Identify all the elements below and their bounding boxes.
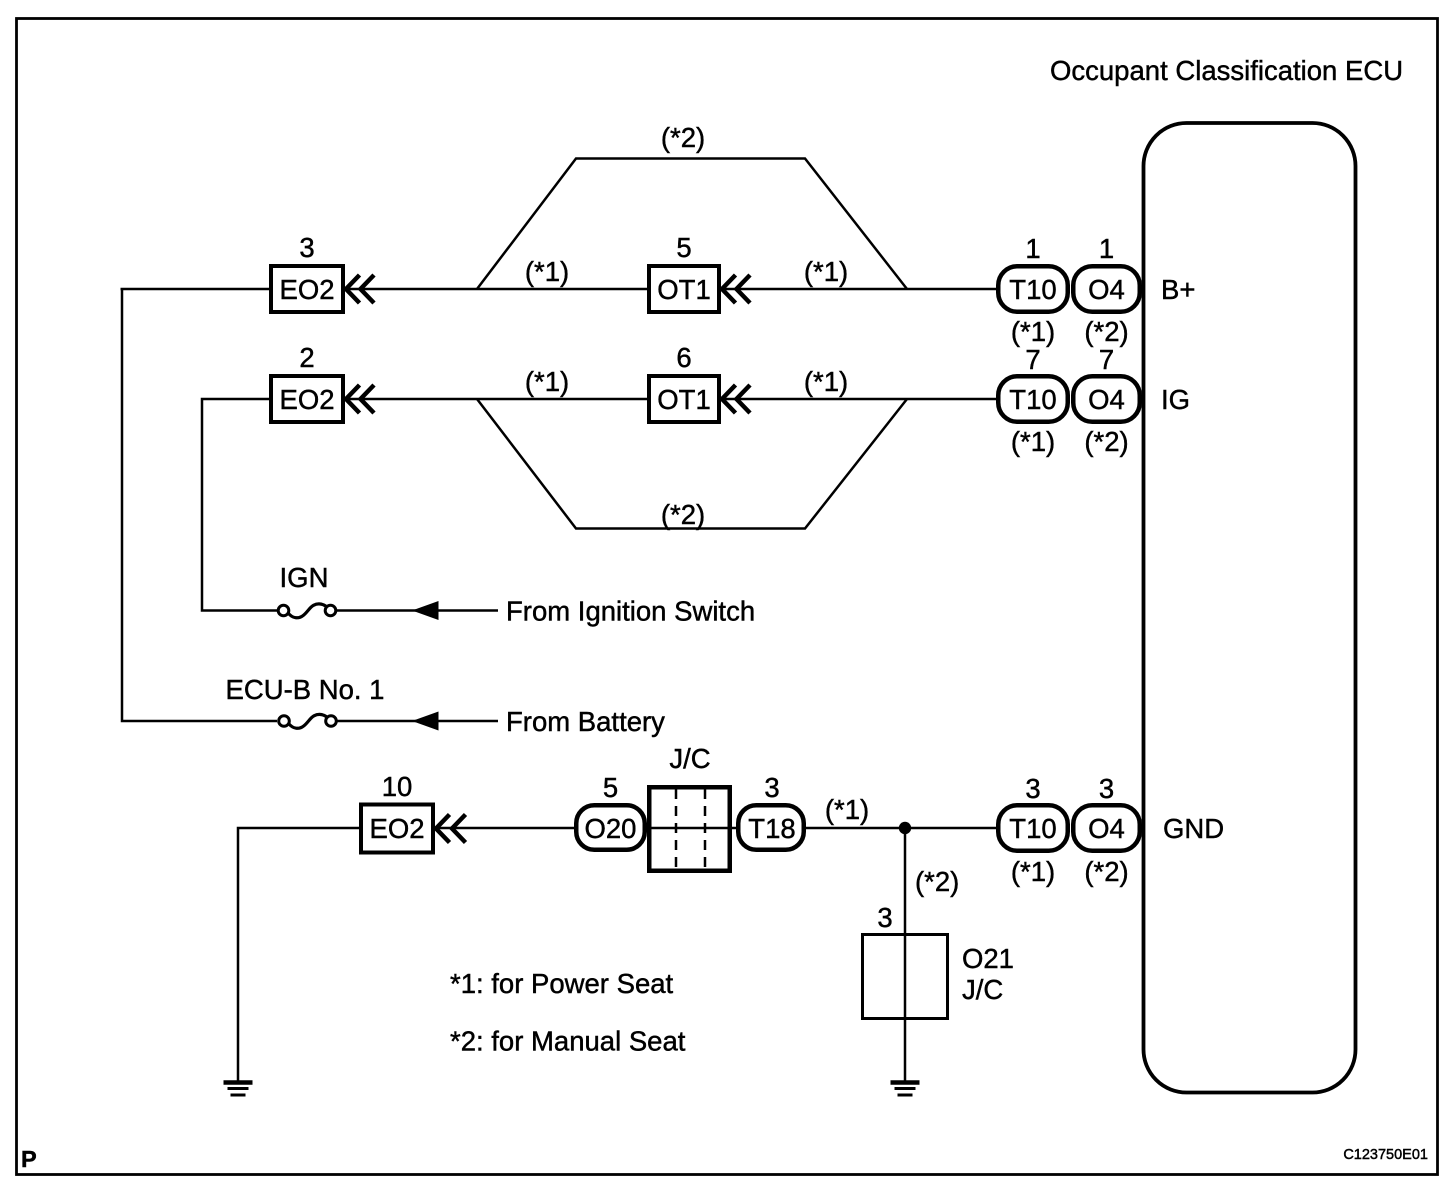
svg-text:7: 7 <box>1099 344 1114 375</box>
connector OT1 pin 6 <box>649 376 719 422</box>
svg-text:From Battery: From Battery <box>506 706 665 737</box>
connector EO2 pin 10 <box>361 805 433 853</box>
svg-text:ECU-B No. 1: ECU-B No. 1 <box>226 674 385 705</box>
wire IG row from EO2 to OT1 <box>345 398 647 401</box>
node junction dot <box>899 822 911 834</box>
svg-text:EO2: EO2 <box>279 384 334 415</box>
wire from EO2 pin2 to IGN fuse vertical <box>202 399 277 611</box>
svg-text:B+: B+ <box>1161 274 1195 305</box>
ground symbol left <box>224 1080 253 1085</box>
svg-text:*1: for Power Seat: *1: for Power Seat <box>450 968 674 999</box>
wire IG row from OT1 to T10 <box>721 398 996 401</box>
connector T10 pin 7 <box>998 376 1068 422</box>
svg-text:From Ignition Switch: From Ignition Switch <box>506 596 755 627</box>
svg-text:(*2): (*2) <box>661 499 705 530</box>
svg-text:(*1): (*1) <box>825 794 869 825</box>
connector O4 pin 7 <box>1073 376 1140 422</box>
svg-text:7: 7 <box>1025 344 1040 375</box>
wire fuse IGN to arrow <box>336 609 420 612</box>
junction block J/C (O20/T18) <box>649 787 730 871</box>
svg-text:(*1): (*1) <box>804 256 848 287</box>
connector EO2 pin 2 <box>271 376 343 422</box>
svg-text:GND: GND <box>1163 813 1224 844</box>
arrow chevrons at OT1 pin 5 <box>722 275 736 303</box>
svg-text:T10: T10 <box>1009 813 1056 844</box>
wire node to O21 to ground <box>904 828 907 1081</box>
svg-text:O4: O4 <box>1088 813 1125 844</box>
svg-text:(*1): (*1) <box>1011 316 1055 347</box>
svg-text:(*2): (*2) <box>915 866 959 897</box>
svg-text:3: 3 <box>1099 773 1114 804</box>
wire B+ row from OT1 to T10 <box>721 288 996 291</box>
J/C dashed line right <box>704 789 707 869</box>
svg-text:J/C: J/C <box>962 974 1003 1005</box>
connector OT1 pin 5 <box>649 266 719 312</box>
svg-text:(*2): (*2) <box>1084 316 1128 347</box>
svg-text:5: 5 <box>676 232 691 263</box>
svg-text:2: 2 <box>299 342 314 373</box>
J/C dashed line left <box>675 789 678 869</box>
svg-text:3: 3 <box>1025 773 1040 804</box>
hexagon (*2) bypass bottom <box>477 399 907 529</box>
svg-text:(*1): (*1) <box>525 256 569 287</box>
wire fuse ECU-B to arrow <box>337 720 421 723</box>
svg-text:(*2): (*2) <box>1084 426 1128 457</box>
svg-text:6: 6 <box>676 342 691 373</box>
arrow chevrons at EO2 pin 3 <box>346 275 360 303</box>
svg-text:O21: O21 <box>962 943 1014 974</box>
svg-text:O20: O20 <box>585 813 637 844</box>
svg-text:10: 10 <box>382 771 413 802</box>
svg-text:IGN: IGN <box>280 562 329 593</box>
svg-text:1: 1 <box>1099 233 1114 264</box>
ground symbol right <box>891 1080 920 1085</box>
wire left vertical to battery fuse <box>122 288 277 721</box>
svg-text:O4: O4 <box>1088 384 1125 415</box>
svg-text:3: 3 <box>299 232 314 263</box>
connector T18 pin 3 <box>738 805 804 850</box>
svg-text:1: 1 <box>1025 233 1040 264</box>
connector O4 pin 1 <box>1073 266 1140 312</box>
arrow chevrons at EO2 pin 2 <box>346 385 360 413</box>
connector T10 pin 3 <box>998 805 1068 851</box>
svg-text:P: P <box>21 1146 37 1172</box>
wire B+ row from EO2 to OT1 <box>345 288 647 291</box>
svg-text:5: 5 <box>603 772 618 803</box>
svg-text:O4: O4 <box>1088 274 1125 305</box>
arrow chevrons at OT1 pin 6 <box>722 385 736 413</box>
arrow from ignition switch <box>412 601 439 620</box>
svg-text:EO2: EO2 <box>369 813 424 844</box>
wire GND row <box>435 827 996 830</box>
svg-text:3: 3 <box>764 772 779 803</box>
connector O4 pin 3 <box>1073 805 1140 851</box>
wire from EO2 pin3 to left vertical <box>121 288 270 291</box>
svg-text:OT1: OT1 <box>657 274 710 305</box>
svg-text:OT1: OT1 <box>657 384 710 415</box>
O21 junction block <box>863 935 948 1019</box>
wire GND row EO2 to left vertical <box>238 828 359 1081</box>
connector O20 pin 5 <box>576 805 645 850</box>
svg-text:T18: T18 <box>748 813 795 844</box>
occupant classification ECU body U1 <box>1144 123 1356 1093</box>
svg-text:J/C: J/C <box>669 743 710 774</box>
svg-text:3: 3 <box>877 902 892 933</box>
arrow chevrons at EO2 pin 10 <box>436 815 450 843</box>
svg-text:T10: T10 <box>1009 274 1056 305</box>
connector EO2 pin 3 <box>271 266 343 312</box>
svg-text:IG: IG <box>1161 384 1190 415</box>
svg-text:*2: for Manual Seat: *2: for Manual Seat <box>450 1026 686 1057</box>
connector T10 pin 1 <box>998 266 1068 312</box>
svg-text:Occupant Classification ECU: Occupant Classification ECU <box>1050 55 1403 86</box>
svg-text:(*1): (*1) <box>525 366 569 397</box>
svg-text:C123750E01: C123750E01 <box>1343 1147 1428 1163</box>
svg-text:(*2): (*2) <box>661 122 705 153</box>
svg-text:(*2): (*2) <box>1084 856 1128 887</box>
svg-text:EO2: EO2 <box>279 274 334 305</box>
hexagon (*2) bypass top <box>477 159 907 290</box>
svg-text:(*1): (*1) <box>804 366 848 397</box>
svg-text:(*1): (*1) <box>1011 856 1055 887</box>
arrow from battery <box>412 712 439 731</box>
svg-text:(*1): (*1) <box>1011 426 1055 457</box>
svg-text:T10: T10 <box>1009 384 1056 415</box>
